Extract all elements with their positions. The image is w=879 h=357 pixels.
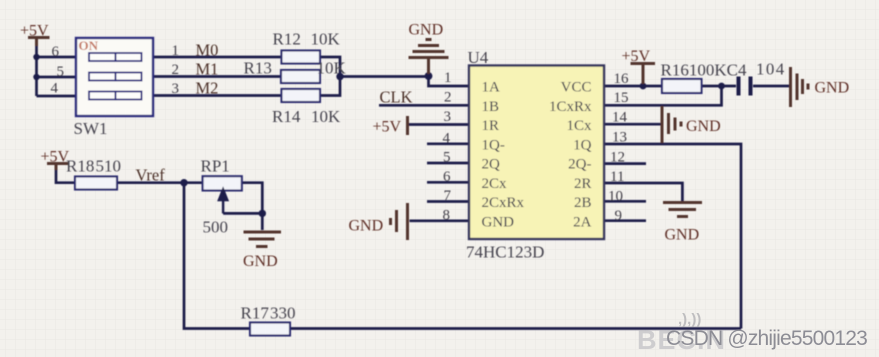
svg-text:74HC123D: 74HC123D	[466, 243, 544, 262]
svg-text:1: 1	[172, 43, 180, 59]
svg-text:11: 11	[610, 169, 624, 185]
svg-text:3: 3	[444, 109, 452, 125]
svg-text:M0: M0	[196, 41, 219, 60]
svg-text:6: 6	[443, 169, 451, 185]
svg-text:3: 3	[172, 81, 180, 97]
svg-text:104: 104	[756, 60, 786, 79]
svg-text:Vref: Vref	[136, 166, 166, 185]
svg-text:1B: 1B	[482, 99, 500, 115]
svg-text:1A: 1A	[482, 80, 501, 96]
svg-text:10: 10	[608, 189, 623, 205]
svg-text:5: 5	[57, 64, 65, 80]
svg-text:RP1: RP1	[201, 157, 230, 176]
svg-text:510: 510	[96, 157, 122, 176]
svg-text:1CxRx: 1CxRx	[549, 99, 592, 115]
svg-text:R18: R18	[66, 157, 94, 176]
svg-text:U4: U4	[468, 48, 489, 67]
svg-text:R16100KC4: R16100KC4	[661, 61, 747, 80]
svg-text:1R: 1R	[482, 118, 500, 134]
svg-text:9: 9	[615, 208, 623, 224]
svg-text:7: 7	[444, 188, 452, 204]
svg-text:CLK: CLK	[380, 88, 413, 107]
svg-text:1Q: 1Q	[573, 137, 592, 153]
svg-text:+5V: +5V	[622, 48, 651, 65]
svg-text:10K: 10K	[311, 107, 341, 126]
svg-text:SW1: SW1	[74, 119, 108, 138]
svg-text:15: 15	[614, 90, 629, 106]
svg-text:GND: GND	[349, 218, 384, 235]
svg-text:+5V: +5V	[373, 119, 402, 136]
svg-text:2R: 2R	[574, 176, 592, 192]
svg-text:+5V: +5V	[20, 23, 49, 40]
svg-text:CSDN @zhijie5500123: CSDN @zhijie5500123	[666, 327, 867, 350]
svg-text:500: 500	[203, 218, 229, 237]
svg-text:VCC: VCC	[561, 80, 592, 96]
svg-text:GND: GND	[686, 118, 721, 135]
svg-text:2Cx: 2Cx	[482, 176, 508, 192]
svg-text:8: 8	[443, 208, 451, 224]
svg-text:2A: 2A	[573, 214, 592, 230]
svg-text:14: 14	[612, 110, 628, 126]
svg-text:16: 16	[614, 71, 630, 87]
svg-text:13: 13	[612, 130, 627, 146]
svg-text:2CxRx: 2CxRx	[482, 195, 525, 211]
svg-text:ON: ON	[79, 38, 99, 53]
svg-text:R13: R13	[244, 59, 272, 78]
svg-text:2: 2	[444, 90, 452, 106]
svg-text:2Q-: 2Q-	[568, 157, 591, 173]
svg-text:5: 5	[443, 150, 451, 166]
svg-text:1: 1	[444, 70, 452, 86]
svg-text:10K: 10K	[317, 59, 347, 78]
svg-text:4: 4	[443, 131, 451, 147]
svg-text:2: 2	[172, 62, 180, 78]
svg-text:R12: R12	[273, 30, 301, 49]
svg-text:M1: M1	[196, 60, 219, 79]
svg-text:1Cx: 1Cx	[566, 118, 592, 134]
svg-text:GND: GND	[815, 80, 850, 97]
svg-text:GND: GND	[665, 227, 700, 244]
svg-text:6: 6	[52, 44, 60, 60]
svg-text:10K: 10K	[311, 30, 341, 49]
svg-text:R17: R17	[241, 304, 270, 323]
svg-text:GND: GND	[409, 22, 444, 39]
svg-text:2Q: 2Q	[482, 157, 501, 173]
svg-text:2B: 2B	[574, 195, 592, 211]
svg-text:12: 12	[610, 150, 625, 166]
svg-text:GND: GND	[482, 214, 515, 230]
svg-text:R14: R14	[272, 107, 301, 126]
svg-text:330: 330	[270, 304, 296, 323]
svg-text:1Q-: 1Q-	[482, 137, 505, 153]
svg-text:,),)): ,),))	[678, 311, 701, 328]
svg-text:M2: M2	[196, 79, 219, 98]
svg-text:4: 4	[51, 81, 59, 97]
svg-text:GND: GND	[243, 253, 278, 270]
